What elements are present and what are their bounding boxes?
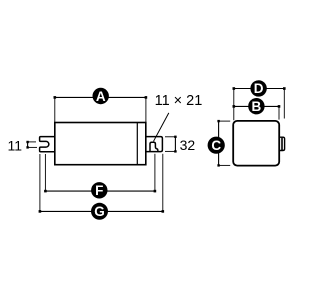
svg-text:D: D <box>254 81 264 96</box>
svg-text:11 × 21: 11 × 21 <box>155 93 203 109</box>
svg-text:F: F <box>95 183 103 198</box>
svg-text:11: 11 <box>8 137 23 153</box>
svg-text:32: 32 <box>180 137 196 153</box>
svg-text:G: G <box>94 204 105 219</box>
svg-text:B: B <box>252 99 262 114</box>
svg-text:C: C <box>211 138 221 153</box>
svg-text:A: A <box>96 89 106 104</box>
